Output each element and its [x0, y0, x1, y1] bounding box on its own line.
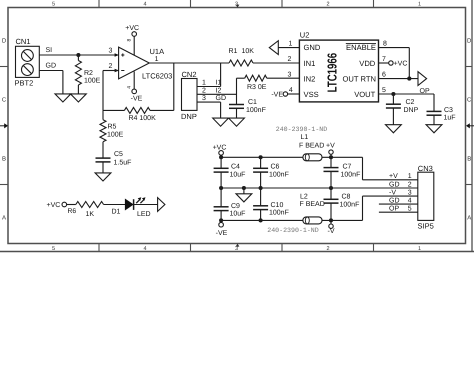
label R4 value [129, 115, 157, 122]
ground C5 [95, 173, 111, 181]
wire L2 to CN3 -V [322, 196, 418, 220]
label C3 value [444, 107, 456, 122]
svg-text:C4: C4 [231, 164, 240, 171]
svg-text:1uF: 1uF [444, 114, 456, 121]
svg-text:2: 2 [288, 56, 292, 63]
power +VC op-amp [132, 32, 137, 55]
node pin6 junction [407, 77, 411, 81]
svg-text:7: 7 [382, 56, 386, 63]
resistor R3 [237, 75, 300, 81]
label C5 value [114, 151, 132, 166]
capacitor C8 [324, 188, 339, 203]
svg-text:C5: C5 [114, 151, 123, 158]
svg-text:+VC: +VC [394, 61, 408, 68]
ferrite bead L1 [303, 154, 322, 161]
label part number bottom [267, 227, 318, 234]
wire CN2 pin2 I2 [197, 93, 237, 95]
svg-text:R6: R6 [68, 208, 77, 215]
svg-text:4: 4 [143, 246, 146, 252]
svg-text:CN3: CN3 [418, 164, 433, 173]
label C4 value [230, 164, 246, 179]
pin3 labels CN2 [202, 95, 226, 102]
svg-text:B: B [2, 156, 6, 163]
wire feedback vertical [102, 71, 104, 111]
port arrow OP [418, 72, 427, 86]
svg-text:1: 1 [418, 1, 421, 7]
svg-text:1: 1 [155, 56, 159, 63]
wire U2 pin5 [379, 93, 435, 95]
svg-text:-VE: -VE [131, 95, 143, 102]
svg-text:SI: SI [46, 47, 53, 54]
label C7 value [341, 164, 361, 179]
svg-text:GD: GD [389, 197, 400, 204]
svg-text:D1: D1 [112, 208, 121, 215]
svg-text:DNP: DNP [404, 107, 419, 114]
wire output to R4 [173, 63, 175, 110]
svg-text:240-2390-1-ND: 240-2390-1-ND [267, 227, 318, 234]
ground CN2 pin3 [213, 118, 229, 126]
svg-text:VOUT: VOUT [354, 90, 375, 99]
svg-text:A: A [467, 215, 471, 222]
svg-text:I1: I1 [216, 80, 222, 87]
svg-text:CN2: CN2 [182, 70, 197, 79]
label L1 [299, 134, 324, 150]
label U1A [150, 47, 165, 56]
svg-text:U1A: U1A [150, 47, 165, 56]
border row letters [2, 38, 472, 222]
svg-text:5: 5 [382, 87, 386, 94]
svg-text:-VE: -VE [216, 230, 228, 237]
power +VC filter [213, 145, 227, 158]
pin number 4 U2 [289, 87, 293, 94]
svg-text:F BEAD: F BEAD [299, 143, 324, 150]
svg-text:LED: LED [137, 211, 151, 218]
capacitor C10 [253, 188, 268, 210]
svg-text:C: C [2, 96, 7, 103]
wire CN2 pin1 [197, 86, 221, 88]
pin number 8 U2 [383, 41, 387, 48]
svg-text:R3 0E: R3 0E [247, 84, 267, 91]
label C9 value [230, 203, 246, 218]
wire GD [39, 71, 63, 94]
svg-text:R2: R2 [84, 70, 93, 77]
svg-text:1: 1 [289, 41, 293, 48]
wire CN2 pin3 [197, 102, 221, 118]
svg-text:2: 2 [326, 246, 329, 252]
ground bus symbol [236, 188, 252, 202]
label -VE op-amp [131, 95, 143, 102]
svg-text:10uF: 10uF [230, 171, 246, 178]
label C10 value [269, 202, 289, 217]
border outer right line [471, 0, 473, 252]
svg-text:F BEAD: F BEAD [300, 201, 325, 208]
svg-text:4: 4 [408, 197, 412, 204]
wire U2 pin6 [379, 78, 419, 80]
svg-text:U2: U2 [300, 31, 310, 40]
capacitor C6 [253, 157, 268, 172]
wire C10 bottom [260, 209, 262, 220]
power -VE op-amp [132, 72, 137, 94]
wire -VE bus [221, 219, 303, 221]
svg-text:5: 5 [52, 246, 55, 252]
connector CN1 [16, 46, 40, 77]
svg-text:10K: 10K [242, 48, 255, 55]
svg-text:R5: R5 [108, 124, 117, 131]
svg-text:-VE: -VE [271, 92, 283, 99]
pin name IN2 [304, 75, 316, 84]
label +VC net U2 [394, 61, 408, 68]
power -VE filter [216, 220, 228, 237]
svg-text:1: 1 [418, 246, 421, 252]
svg-text:100nF: 100nF [341, 172, 361, 179]
wire U2 pin4 VSS [283, 92, 299, 96]
wire U2 pin1 [278, 47, 299, 49]
label PBT2 [15, 79, 34, 88]
border centering arrow top [236, 5, 240, 8]
border outer bottom line [0, 251, 474, 253]
svg-text:+V: +V [389, 173, 398, 180]
power -V [329, 220, 333, 228]
svg-text:2: 2 [202, 87, 206, 94]
svg-text:C6: C6 [271, 164, 280, 171]
svg-text:VDD: VDD [359, 59, 376, 68]
pin name VDD [359, 59, 376, 68]
wire op-amp output [149, 62, 299, 64]
label C6 value [269, 164, 289, 179]
pin number 1 U2 [289, 41, 293, 48]
border centering arrow bottom [236, 244, 240, 247]
svg-text:SIP5: SIP5 [418, 221, 434, 230]
wire U2 pin7 [379, 61, 394, 65]
label -VE net [271, 92, 283, 99]
pin1 labels CN2 [202, 80, 221, 87]
border centering arrow right [466, 123, 474, 128]
svg-text:5: 5 [52, 1, 55, 7]
svg-text:3: 3 [408, 189, 412, 196]
wire output to CN2 pin1 [220, 63, 222, 87]
svg-text:2: 2 [408, 181, 412, 188]
svg-text:3: 3 [288, 71, 292, 78]
svg-text:6: 6 [382, 71, 386, 78]
label LTC6203 [142, 72, 172, 81]
wire I2 R3 C1 vertical [236, 78, 238, 104]
pin number 5 U2 [382, 87, 386, 94]
svg-text:1: 1 [408, 173, 412, 180]
border row dividers [0, 67, 472, 185]
svg-text:10uF: 10uF [230, 211, 246, 218]
svg-text:240-2390-1-ND: 240-2390-1-ND [276, 126, 327, 133]
wire L1 to CN3 +V [322, 157, 418, 180]
label CN1 [16, 37, 31, 46]
svg-text:-V: -V [328, 228, 335, 235]
LED emission arrows [136, 197, 145, 203]
label -V [328, 228, 335, 235]
svg-text:C10: C10 [271, 202, 284, 209]
LED D1 [125, 199, 157, 210]
svg-text:1.5uF: 1.5uF [114, 160, 132, 167]
svg-text:GD: GD [46, 62, 57, 69]
svg-text:3: 3 [235, 246, 238, 252]
label CN2 [182, 70, 197, 79]
label R2 value [84, 70, 101, 85]
svg-text:PBT2: PBT2 [15, 79, 34, 88]
label R6 [68, 208, 77, 215]
pin 4 tiny label [127, 86, 133, 89]
svg-text:OP: OP [389, 206, 399, 213]
capacitor C9 [214, 188, 229, 211]
wire C5 to ground [102, 162, 104, 173]
label D1 [112, 208, 121, 215]
connector CN3 [418, 172, 434, 220]
pin name OUT RTN [343, 75, 376, 84]
capacitor C3 [427, 94, 442, 115]
border zone ticks [99, 0, 374, 252]
port arrow GND [269, 41, 278, 55]
label GD [46, 62, 57, 69]
ground C2 [386, 125, 402, 133]
svg-text:GD: GD [389, 181, 400, 188]
wire op-amp inverting [103, 70, 119, 72]
wire C3 to ground [433, 115, 435, 125]
svg-text:100nF: 100nF [269, 172, 289, 179]
svg-text:CN1: CN1 [16, 37, 31, 46]
pin name IN1 [304, 59, 316, 68]
label R5 value [107, 124, 124, 139]
label C8 value [340, 194, 360, 209]
svg-text:2: 2 [326, 1, 329, 7]
connector CN2 [182, 79, 198, 111]
label part number top [276, 126, 327, 133]
pin name ENABLE [346, 43, 376, 52]
ground C3 [426, 125, 442, 133]
label LED [137, 211, 151, 218]
ground C1 [229, 118, 245, 126]
svg-text:C9: C9 [231, 203, 240, 210]
svg-text:IN2: IN2 [304, 75, 316, 84]
svg-text:GD: GD [216, 95, 227, 102]
IC U2 body [299, 40, 378, 102]
border zone numbers [52, 1, 421, 252]
label SIP5 [418, 221, 434, 230]
wire C4 bottom [220, 172, 222, 188]
pin number 7 U2 [382, 56, 386, 63]
svg-text:VSS: VSS [304, 90, 319, 99]
svg-text:I2: I2 [216, 87, 222, 94]
svg-text:8: 8 [383, 41, 387, 48]
svg-text:C3: C3 [444, 107, 453, 114]
capacitor C5 [96, 158, 111, 162]
svg-text:C7: C7 [343, 164, 352, 171]
capacitor C2 [386, 94, 401, 108]
node pin5 junction [391, 92, 395, 96]
wire C1 to ground [236, 108, 238, 118]
pin 2 label [109, 63, 113, 70]
svg-text:+VC: +VC [47, 202, 61, 209]
wire ground bus [221, 187, 418, 189]
svg-text:C2: C2 [406, 99, 415, 106]
label +V [326, 143, 335, 150]
port arrow LED [158, 198, 165, 212]
pin 3 label [109, 48, 113, 55]
wire C6 bottom [260, 172, 262, 188]
pin number 6 U2 [382, 71, 386, 78]
capacitor C1 [229, 105, 244, 109]
svg-text:4: 4 [127, 86, 133, 89]
pin number 3 U2 [288, 71, 292, 78]
label C2 value [404, 99, 419, 114]
svg-text:C: C [467, 96, 472, 103]
node bus dots mid [219, 186, 333, 190]
label L2 [300, 193, 325, 208]
svg-text:D: D [2, 38, 7, 45]
capacitor C7 [324, 157, 339, 171]
label SI [46, 47, 53, 54]
capacitor C4 [214, 157, 229, 172]
pin number 2 U2 [288, 56, 292, 63]
resistor R6 [67, 202, 126, 208]
label 1K [86, 211, 95, 218]
wire +VC bus [221, 156, 303, 158]
svg-text:100E: 100E [107, 131, 124, 138]
border inner frame [8, 8, 466, 244]
svg-text:100nF: 100nF [340, 202, 360, 209]
ground GD [55, 94, 71, 102]
svg-text:+V: +V [326, 143, 335, 150]
svg-text:3: 3 [235, 1, 238, 7]
svg-text:A: A [2, 215, 6, 222]
node bus dots top [219, 155, 333, 159]
svg-text:+VC: +VC [125, 25, 139, 32]
svg-text:-V: -V [389, 189, 396, 196]
label R1 value [229, 48, 255, 55]
node bus dots bottom [219, 218, 333, 222]
svg-text:R4 100K: R4 100K [129, 115, 157, 122]
svg-text:R1: R1 [229, 48, 238, 55]
label U2 [300, 31, 310, 40]
power +VC LED [47, 202, 67, 209]
svg-text:L1: L1 [301, 134, 309, 141]
resistor R1 [229, 60, 253, 66]
svg-text:100E: 100E [84, 77, 101, 84]
wire C7 bottom [330, 171, 332, 188]
wire C9 bottom [220, 210, 222, 220]
border centering arrow left [0, 123, 8, 128]
pin2 labels CN2 [202, 87, 221, 94]
power +V [329, 150, 333, 157]
wire C8 bottom [330, 203, 332, 221]
svg-text:ENABLE: ENABLE [346, 43, 376, 52]
resistor R2 [75, 55, 81, 94]
pin 8 tiny label [127, 39, 133, 42]
svg-text:2: 2 [109, 63, 113, 70]
svg-text:OUT RTN: OUT RTN [343, 75, 376, 84]
svg-text:DNP: DNP [181, 112, 197, 121]
svg-text:1: 1 [202, 80, 206, 87]
label OP [420, 88, 430, 95]
label C1 value [246, 99, 266, 114]
svg-text:D: D [467, 38, 472, 45]
svg-text:LTC1966: LTC1966 [324, 53, 339, 93]
wire CN3 pin5 OP [379, 211, 418, 213]
resistor R4 [103, 107, 174, 113]
wire U2 pin8 [379, 48, 410, 79]
wire C2 to ground [392, 108, 394, 125]
pin 1 label [155, 56, 159, 63]
svg-text:3: 3 [109, 48, 113, 55]
svg-text:4: 4 [289, 87, 293, 94]
svg-text:LTC6203: LTC6203 [142, 72, 172, 81]
pin name GND [304, 43, 321, 52]
wire SI [39, 54, 118, 56]
svg-text:IN1: IN1 [304, 59, 316, 68]
svg-text:GND: GND [304, 43, 321, 52]
label +VC op-amp [125, 25, 139, 32]
node SI junction [76, 53, 80, 57]
pin name VSS [304, 90, 319, 99]
svg-text:C8: C8 [342, 194, 351, 201]
svg-text:B: B [467, 156, 471, 163]
svg-text:4: 4 [143, 1, 146, 7]
svg-text:3: 3 [202, 95, 206, 102]
ground R2 [71, 94, 87, 102]
label DNP CN2 [181, 112, 197, 121]
label CN3 [418, 164, 433, 173]
op-amp U1A [115, 47, 150, 79]
wire CN3 pin4 GD [379, 203, 418, 205]
svg-text:5: 5 [408, 206, 412, 213]
svg-text:8: 8 [127, 39, 133, 42]
svg-text:1K: 1K [86, 211, 95, 218]
label R3 value [247, 84, 267, 91]
svg-text:C1: C1 [248, 99, 257, 106]
svg-text:100nF: 100nF [269, 210, 289, 217]
resistor R5 [100, 110, 106, 158]
label LTC1966 [324, 53, 339, 93]
pin name VOUT [354, 90, 375, 99]
ferrite bead L2 [303, 217, 322, 224]
svg-text:L2: L2 [300, 193, 308, 200]
svg-text:100nF: 100nF [246, 107, 266, 114]
pin labels CN3 [389, 173, 412, 212]
